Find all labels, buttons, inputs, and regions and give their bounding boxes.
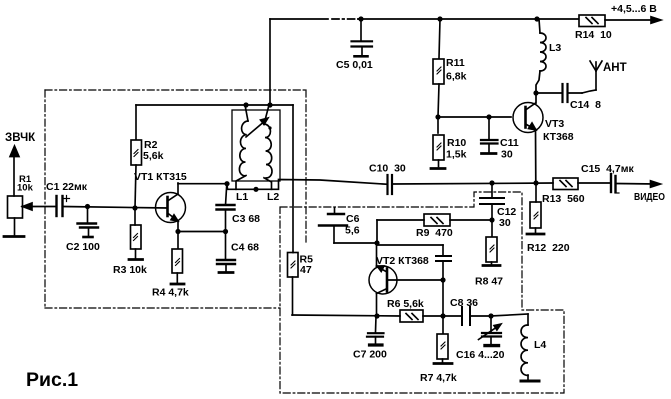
svg-text:+4,5...6 В: +4,5...6 В — [611, 3, 657, 15]
svg-text:1,5k: 1,5k — [446, 149, 467, 161]
svg-text:C8 36: C8 36 — [450, 297, 478, 309]
svg-text:L2: L2 — [267, 191, 279, 203]
svg-text:C10 30: C10 30 — [369, 163, 406, 175]
svg-text:R11: R11 — [446, 57, 465, 69]
svg-text:47: 47 — [300, 264, 312, 276]
svg-text:R13 560: R13 560 — [542, 193, 585, 205]
svg-text:ЗВЧК: ЗВЧК — [5, 132, 36, 144]
svg-text:C3 68: C3 68 — [232, 213, 260, 225]
svg-text:30: 30 — [501, 149, 513, 161]
svg-text:L3: L3 — [549, 42, 561, 54]
svg-text:Рис.1: Рис.1 — [26, 369, 78, 391]
svg-text:6,8k: 6,8k — [446, 71, 467, 83]
svg-text:C2 100: C2 100 — [66, 241, 100, 253]
svg-text:C5 0,01: C5 0,01 — [336, 59, 373, 71]
svg-text:R4 4,7k: R4 4,7k — [152, 287, 189, 299]
svg-text:R10: R10 — [447, 137, 466, 149]
svg-text:R8 47: R8 47 — [475, 276, 503, 288]
svg-text:R9 470: R9 470 — [416, 227, 453, 239]
svg-text:C7 200: C7 200 — [353, 349, 387, 361]
svg-text:5,6k: 5,6k — [143, 150, 164, 162]
svg-text:R7 4,7k: R7 4,7k — [420, 372, 457, 384]
svg-text:C16 4...20: C16 4...20 — [456, 349, 505, 361]
svg-text:C15 4,7мк: C15 4,7мк — [581, 163, 634, 175]
svg-text:АНТ: АНТ — [603, 62, 627, 74]
svg-text:R3 10k: R3 10k — [113, 264, 147, 276]
svg-text:C4 68: C4 68 — [231, 242, 259, 254]
svg-text:30: 30 — [499, 217, 511, 229]
svg-text:ВИДЕО: ВИДЕО — [634, 192, 665, 203]
svg-text:10k: 10k — [17, 183, 34, 194]
svg-text:R6 5,6k: R6 5,6k — [387, 298, 424, 310]
svg-text:5,6: 5,6 — [345, 225, 360, 237]
svg-text:C1 22мк: C1 22мк — [46, 181, 88, 193]
svg-text:КТ368: КТ368 — [543, 131, 574, 143]
svg-text:VT2 КТ368: VT2 КТ368 — [376, 255, 429, 267]
svg-text:R14 10: R14 10 — [575, 29, 612, 41]
svg-text:L1: L1 — [236, 191, 248, 203]
svg-text:C6: C6 — [346, 213, 360, 225]
svg-text:C14 8: C14 8 — [570, 99, 601, 111]
svg-text:C11: C11 — [500, 137, 519, 149]
svg-text:VT1 КТ315: VT1 КТ315 — [134, 171, 187, 183]
svg-text:VT3: VT3 — [545, 118, 564, 130]
svg-text:R12 220: R12 220 — [527, 242, 570, 254]
svg-text:L4: L4 — [534, 339, 546, 351]
